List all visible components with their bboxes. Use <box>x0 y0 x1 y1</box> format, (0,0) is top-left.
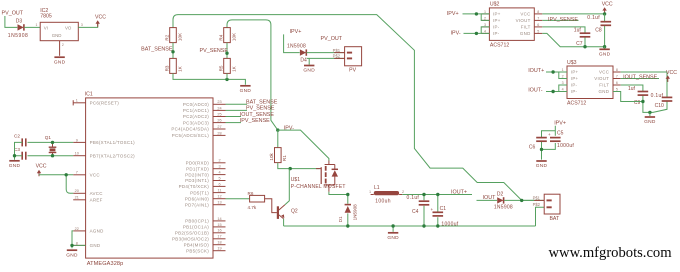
svg-text:0.1uf: 0.1uf <box>407 195 420 201</box>
svg-text:14: 14 <box>217 217 221 221</box>
wire Q2 emitter to ground rail <box>283 219 285 226</box>
svg-text:VCC: VCC <box>666 70 677 76</box>
connector BAT (battery) <box>533 194 560 222</box>
wire XTAL1 row <box>28 141 74 143</box>
svg-text:1: 1 <box>36 23 38 27</box>
svg-text:PB5(SCK): PB5(SCK) <box>186 248 209 253</box>
svg-text:PD4(T0/XCK): PD4(T0/XCK) <box>179 184 210 189</box>
transistor Q2 <box>278 205 285 219</box>
svg-text:P$1: P$1 <box>333 48 341 53</box>
svg-text:L1: L1 <box>374 185 380 191</box>
wire PV net: R4 top to IPV- junction <box>227 20 278 130</box>
svg-text:Q2: Q2 <box>291 208 298 214</box>
wire L1 to IOUT+ node <box>402 194 472 196</box>
junction C3 left <box>13 154 16 157</box>
IC1 pin 1 reset end tick <box>72 100 74 105</box>
svg-text:1000uf: 1000uf <box>557 143 574 149</box>
voltage regulator IC2 7805 <box>40 8 78 40</box>
wire GND stub under D4 <box>308 58 310 64</box>
wire VCC down through C8 to GND <box>604 14 606 47</box>
wire D2 to BAT P$1 <box>504 199 544 201</box>
wire IOUT to D2 <box>477 199 498 201</box>
svg-text:PV: PV <box>349 67 356 73</box>
svg-text:1K: 1K <box>231 65 236 72</box>
junction rail GND <box>391 224 394 227</box>
svg-text:2: 2 <box>402 190 404 194</box>
wire U$2 GND pin to GND <box>542 33 604 46</box>
svg-text:10k: 10k <box>269 152 274 160</box>
svg-text:P$2: P$2 <box>533 202 541 207</box>
svg-text:IOUT_SENSE: IOUT_SENSE <box>240 112 275 118</box>
svg-text:IP-: IP- <box>571 83 578 88</box>
svg-text:15: 15 <box>217 223 221 227</box>
wire U$2 FILT to C7 <box>542 27 585 47</box>
wire BAT P$2 down to ground rail <box>536 207 545 226</box>
connector PV (solar panel) <box>333 47 362 74</box>
svg-text:VCC: VCC <box>599 70 609 75</box>
svg-text:C8: C8 <box>595 28 602 34</box>
svg-text:IOUT_SENSE: IOUT_SENSE <box>623 74 658 80</box>
svg-text:7: 7 <box>76 171 78 175</box>
diode D1 (freewheel, cathode up) <box>345 205 351 213</box>
svg-text:Q1: Q1 <box>45 135 52 140</box>
svg-text:18: 18 <box>217 241 221 245</box>
wire Q2 collector to gate node <box>285 169 289 205</box>
junction C1 bottom <box>436 224 439 227</box>
svg-text:P$1: P$1 <box>533 196 541 201</box>
wire IPV+ down to C5 and C6 <box>542 126 556 160</box>
svg-text:PB6(XTAL1/TOSC1): PB6(XTAL1/TOSC1) <box>90 140 136 145</box>
svg-text:GND: GND <box>599 52 611 58</box>
svg-text:6: 6 <box>537 23 539 27</box>
ground (under D4) <box>303 66 315 74</box>
ground (crystal caps) <box>9 161 21 169</box>
wire IPV- to MOSFET source <box>278 130 329 161</box>
svg-text:AREF: AREF <box>90 198 103 203</box>
svg-text:GND: GND <box>303 68 315 74</box>
wire VCC to pin7 and AVCC <box>39 175 73 194</box>
svg-text:6: 6 <box>218 182 220 186</box>
junction C4 top <box>422 193 425 196</box>
svg-text:PC2(ADC2): PC2(ADC2) <box>183 114 209 119</box>
power VCC (IC2 output) <box>95 15 106 27</box>
capacitor C9 1uf <box>638 92 649 96</box>
svg-text:VCC: VCC <box>90 173 101 178</box>
svg-text:9: 9 <box>76 138 78 142</box>
wire D4 to PV pin P$1 <box>307 52 345 54</box>
wire IPV- down to R1 <box>277 130 279 148</box>
capacitor C2 (XTAL1) <box>22 138 26 146</box>
capacitor C6 <box>536 138 547 142</box>
svg-text:PC4(ADC4/SDA): PC4(ADC4/SDA) <box>171 127 209 132</box>
svg-text:22: 22 <box>75 227 79 231</box>
capacitor C10 0.1uf <box>662 97 673 101</box>
wire ground rail <box>284 225 536 227</box>
wire PV pin P$2 to ground <box>307 57 345 59</box>
svg-text:IP+: IP+ <box>571 70 579 75</box>
svg-text:PV_OUT: PV_OUT <box>2 11 24 17</box>
capacitor C5 1000uf (polarized) <box>548 132 561 141</box>
svg-text:0.1uf: 0.1uf <box>651 93 664 99</box>
junction C4 bottom <box>422 224 425 227</box>
svg-text:D1: D1 <box>338 216 343 222</box>
svg-text:IPV_SENSE: IPV_SENSE <box>240 118 270 124</box>
junction C5/C6 bottom <box>540 148 543 151</box>
svg-text:C2: C2 <box>14 133 20 138</box>
junction C9 bottom <box>641 100 644 103</box>
wire IOUT- to U$3 IP- pins <box>546 85 567 92</box>
ground (U$3) <box>644 117 656 125</box>
junction D1 top <box>346 193 349 196</box>
ground (U$2) <box>599 49 611 57</box>
wire U$2 VCC to VCC net <box>542 13 604 15</box>
svg-text:R2: R2 <box>164 34 169 40</box>
svg-text:IPV-: IPV- <box>284 126 294 132</box>
svg-text:4: 4 <box>218 171 220 175</box>
crystal Q1 <box>45 135 57 156</box>
svg-text:ATMEGA328p: ATMEGA328p <box>87 261 124 267</box>
wire PC1 to PV_SENSE label <box>226 109 248 111</box>
svg-text:VO: VO <box>65 26 72 31</box>
svg-text:+: + <box>431 207 434 212</box>
junction R5 bottom <box>225 78 228 81</box>
svg-text:8: 8 <box>616 68 618 72</box>
svg-text:1uf: 1uf <box>574 28 582 34</box>
svg-text:PB7(XTAL2/TOSC2): PB7(XTAL2/TOSC2) <box>90 153 136 158</box>
diode D3 <box>18 24 24 30</box>
svg-text:IOUT+: IOUT+ <box>528 68 544 74</box>
svg-text:20: 20 <box>75 189 79 193</box>
svg-text:2: 2 <box>62 43 64 47</box>
wire IOUT+ to U$3 IP+ pins <box>546 72 567 79</box>
wire U$2 VIOUT to IPV_SENSE <box>542 19 578 21</box>
junction AGND/GND <box>70 244 73 247</box>
svg-text:P-CHANNEL MOSFET: P-CHANNEL MOSFET <box>291 184 346 190</box>
wire U$3 VCC right and down through C10 <box>621 72 667 112</box>
svg-text:www.mfgrobots.com: www.mfgrobots.com <box>549 245 673 261</box>
power VCC arrow (IC1) <box>36 163 47 176</box>
svg-text:IC1: IC1 <box>85 91 93 97</box>
wire U$3 FILT to C9 <box>621 85 643 102</box>
svg-text:8: 8 <box>537 10 539 14</box>
wire IPV+ down to D4 <box>284 34 300 52</box>
svg-text:IP+: IP+ <box>493 12 501 17</box>
svg-text:1N5908: 1N5908 <box>494 205 513 211</box>
svg-text:PC0(ADC0): PC0(ADC0) <box>183 102 209 107</box>
wire R3 bottom to divider GND rail <box>173 73 245 84</box>
svg-text:IP-: IP- <box>571 89 578 94</box>
svg-text:IPV-: IPV- <box>451 31 461 37</box>
junction crystal XTAL1 <box>51 141 54 144</box>
svg-text:7805: 7805 <box>40 14 52 20</box>
svg-text:VIOUT: VIOUT <box>516 18 531 23</box>
wire D1 stubs <box>347 195 349 227</box>
svg-text:PD5(T1): PD5(T1) <box>190 190 209 195</box>
svg-text:PD0(RXD): PD0(RXD) <box>186 161 210 166</box>
junction D1 bottom <box>346 224 349 227</box>
svg-text:100uh: 100uh <box>375 198 391 204</box>
svg-text:25: 25 <box>217 112 221 116</box>
svg-text:11: 11 <box>218 189 222 193</box>
svg-text:GND: GND <box>240 88 252 94</box>
wire caps to GND <box>15 142 23 159</box>
svg-text:1N5908: 1N5908 <box>287 44 306 50</box>
wire U$3 GND pin route <box>613 92 650 113</box>
svg-text:7: 7 <box>616 75 618 79</box>
svg-text:U$3: U$3 <box>567 60 577 66</box>
svg-text:1N5908: 1N5908 <box>8 33 29 39</box>
svg-text:P$2: P$2 <box>333 54 341 59</box>
ground (rail) <box>387 233 399 241</box>
op-amp U$3 ACS712 current sensor <box>559 60 621 107</box>
svg-text:21: 21 <box>75 196 79 200</box>
svg-text:VIOUT: VIOUT <box>594 76 609 81</box>
svg-text:10: 10 <box>75 152 79 156</box>
svg-text:R5: R5 <box>218 65 223 71</box>
junction gate node <box>289 167 292 170</box>
svg-text:VI: VI <box>44 26 48 31</box>
svg-text:3: 3 <box>81 23 83 27</box>
resistor R1 10k <box>269 148 287 163</box>
svg-text:1000uf: 1000uf <box>441 221 458 227</box>
wire U$3 VIOUT to IOUT_SENSE <box>621 78 659 80</box>
power VCC (U$3) <box>666 70 678 82</box>
svg-text:IPV+: IPV+ <box>290 29 302 35</box>
svg-text:GND: GND <box>536 163 548 169</box>
svg-text:FILT: FILT <box>521 25 531 30</box>
capacitor C7 1uf <box>580 33 591 37</box>
svg-text:C10: C10 <box>655 103 664 109</box>
svg-text:PV_OUT: PV_OUT <box>321 36 343 42</box>
wire R6 to Q2 base <box>265 199 277 213</box>
resistor R2 10K <box>164 28 182 43</box>
svg-text:R3: R3 <box>164 65 169 71</box>
svg-text:C5: C5 <box>557 131 564 137</box>
svg-text:4.7k: 4.7k <box>248 205 257 210</box>
svg-text:PB4(MISO): PB4(MISO) <box>184 242 210 247</box>
svg-text:5: 5 <box>537 30 539 34</box>
svg-text:23: 23 <box>217 100 221 104</box>
op-amp U$2 ACS712 current sensor <box>481 2 542 49</box>
svg-text:R1: R1 <box>282 155 287 161</box>
svg-text:IOUT-: IOUT- <box>528 88 543 94</box>
svg-text:AGND: AGND <box>90 229 104 234</box>
ground (IC2) <box>54 57 66 65</box>
junction C7 to GND line <box>583 45 586 48</box>
svg-text:GND: GND <box>599 89 610 94</box>
svg-text:PB0(ICP1): PB0(ICP1) <box>185 219 209 224</box>
wire PC2 to IOUT_SENSE label <box>226 116 242 118</box>
wire D3 to IC2 VI <box>24 26 40 28</box>
svg-text:PV_SENSE: PV_SENSE <box>246 106 275 112</box>
svg-text:GND: GND <box>387 235 399 241</box>
IC1 right pins <box>171 100 225 253</box>
svg-text:GND: GND <box>90 243 101 248</box>
svg-text:2: 2 <box>218 159 220 163</box>
svg-text:19: 19 <box>217 247 221 251</box>
svg-text:PC1(ADC1): PC1(ADC1) <box>183 108 209 113</box>
svg-text:GND: GND <box>54 59 66 65</box>
svg-text:IP-: IP- <box>493 25 500 30</box>
wire AGND and GND pins to ground <box>72 231 86 248</box>
svg-text:10K: 10K <box>231 32 236 41</box>
svg-text:IPV+: IPV+ <box>554 121 566 127</box>
svg-text:PV_SENSE: PV_SENSE <box>200 48 229 54</box>
ground (IC1) <box>66 250 78 258</box>
svg-text:D2: D2 <box>497 192 504 198</box>
wire PV_OUT to D3 <box>5 16 17 27</box>
junction IPV- node <box>276 128 279 131</box>
svg-text:IOUT+: IOUT+ <box>451 190 467 196</box>
svg-text:BAT_SENSE: BAT_SENSE <box>141 47 173 53</box>
resistor R5 1K <box>218 58 236 73</box>
svg-text:VCC: VCC <box>95 15 106 21</box>
wire GND stub U$2 <box>604 47 606 49</box>
resistor R3 1K <box>164 58 182 73</box>
capacitor C4 0.1uf <box>419 195 430 227</box>
svg-text:FILT: FILT <box>599 83 609 88</box>
svg-text:C9: C9 <box>634 100 641 106</box>
junction U$2 VCC / C8 <box>603 12 606 15</box>
wire IC2 GND pin down <box>59 41 61 56</box>
wire IC2 VO to VCC <box>78 23 97 27</box>
wire PD6 to R6 <box>226 198 250 200</box>
svg-text:13: 13 <box>217 201 221 205</box>
svg-text:PD6(AIN0): PD6(AIN0) <box>185 196 209 201</box>
power VCC (U$2) <box>602 2 613 14</box>
junction U$3 GND node <box>648 111 651 114</box>
svg-text:IPV_SENSE: IPV_SENSE <box>548 17 578 23</box>
wire R2 to R3 through BAT_SENSE node <box>172 43 174 59</box>
svg-text:R6: R6 <box>248 191 254 196</box>
svg-text:1uf: 1uf <box>628 86 636 92</box>
resistor R6 4.7k <box>248 191 265 210</box>
svg-text:PD3(INT1): PD3(INT1) <box>185 178 209 183</box>
svg-text:PB2(SS/OC1B): PB2(SS/OC1B) <box>175 231 209 236</box>
wire MOSFET drain to L1 node <box>329 192 348 195</box>
svg-text:GND: GND <box>644 119 656 125</box>
wire IPV+ to U$2 IP+ pins <box>463 14 490 21</box>
svg-text:PD1(TXD): PD1(TXD) <box>186 166 209 171</box>
svg-text:C6: C6 <box>529 144 536 150</box>
svg-text:IP+: IP+ <box>571 76 579 81</box>
svg-text:17: 17 <box>217 235 221 239</box>
capacitor C8 0.1uf <box>601 22 612 26</box>
svg-text:U$1: U$1 <box>291 177 300 183</box>
svg-text:IP+: IP+ <box>493 18 501 23</box>
svg-text:BAT_SENSE: BAT_SENSE <box>246 100 278 106</box>
junction staircase to BAT wire <box>520 199 523 202</box>
svg-text:GND: GND <box>9 163 21 169</box>
wire R1 bottom to gate line <box>278 163 320 169</box>
wire IPV- to U$2 IP- pins <box>464 27 490 34</box>
junction crystal XTAL2 <box>51 154 54 157</box>
svg-text:VCC: VCC <box>36 163 47 169</box>
inductor L1 100uh <box>369 185 404 204</box>
capacitor C4 plates <box>419 201 430 205</box>
wire GND stub on rail <box>392 226 394 232</box>
ground (dividers) <box>240 86 252 94</box>
svg-text:ACS712: ACS712 <box>567 100 586 106</box>
svg-text:D3: D3 <box>16 19 23 25</box>
svg-text:1N5908: 1N5908 <box>352 204 357 221</box>
svg-text:7: 7 <box>537 17 539 21</box>
svg-text:10K: 10K <box>177 32 182 41</box>
junction C1 top <box>436 193 439 196</box>
svg-text:VCC: VCC <box>602 2 613 8</box>
svg-text:3: 3 <box>218 165 220 169</box>
svg-text:R4: R4 <box>218 34 223 40</box>
svg-text:PC3(ADC3): PC3(ADC3) <box>183 120 209 125</box>
svg-text:1: 1 <box>76 99 78 103</box>
resistor R4 10K <box>218 28 236 43</box>
svg-text:ACS712: ACS712 <box>490 43 509 49</box>
svg-text:27: 27 <box>217 125 221 129</box>
svg-text:IPV+: IPV+ <box>447 11 459 17</box>
svg-text:GND: GND <box>52 33 62 38</box>
svg-text:+: + <box>548 132 551 137</box>
ground (C5/C6) <box>536 161 548 169</box>
svg-text:8: 8 <box>76 241 78 245</box>
svg-text:U$2: U$2 <box>490 2 500 8</box>
svg-text:6: 6 <box>616 81 618 85</box>
svg-text:28: 28 <box>217 131 221 135</box>
svg-text:1: 1 <box>369 190 371 194</box>
svg-text:24: 24 <box>217 106 221 110</box>
svg-text:AVCC: AVCC <box>90 191 104 196</box>
svg-text:0.1uf: 0.1uf <box>587 15 600 21</box>
wire R4 to R5 through PV_SENSE node <box>226 43 228 59</box>
wire PC0 to BAT_SENSE label <box>226 103 248 105</box>
wire XTAL2 row <box>28 155 74 157</box>
svg-text:26: 26 <box>217 119 221 123</box>
IC1 left pins <box>73 99 135 248</box>
svg-text:16: 16 <box>217 229 221 233</box>
wire BAT net: R2 top to staircase to D2 (long route) <box>173 15 534 201</box>
wire GND stub U$3 <box>649 112 651 116</box>
svg-text:BAT: BAT <box>549 216 560 222</box>
junction VCC/AVCC <box>65 173 68 176</box>
svg-text:PC5(ADC5/SCL): PC5(ADC5/SCL) <box>172 133 209 138</box>
svg-text:C1: C1 <box>440 206 447 212</box>
svg-text:1K: 1K <box>177 65 182 72</box>
svg-text:IP-: IP- <box>493 31 500 36</box>
svg-text:PC6(RESET): PC6(RESET) <box>90 101 120 106</box>
microcontroller IC1 ATMEGA328p <box>85 91 213 267</box>
diode D4 <box>300 49 306 55</box>
svg-text:GND: GND <box>66 252 78 258</box>
svg-text:12: 12 <box>217 195 221 199</box>
capacitor C3 (XTAL2) <box>22 152 26 160</box>
junction C8 to GND line <box>603 45 606 48</box>
svg-text:PD7(AIN1): PD7(AIN1) <box>185 202 209 207</box>
transistor U$1 P-CHANNEL MOSFET <box>316 161 338 192</box>
wire R5 bottom <box>226 73 228 79</box>
svg-text:GND: GND <box>520 31 531 36</box>
svg-text:VCC: VCC <box>520 12 530 17</box>
svg-text:PD2(INT0): PD2(INT0) <box>185 172 209 177</box>
svg-text:5: 5 <box>218 176 220 180</box>
wire PC3 to IPV_SENSE label <box>226 122 242 124</box>
svg-text:D4: D4 <box>300 57 307 63</box>
svg-text:PB3(MOSI/OC2): PB3(MOSI/OC2) <box>172 237 209 242</box>
svg-text:C4: C4 <box>412 209 419 215</box>
capacitor C1 1000uf (polarized) <box>431 195 444 227</box>
svg-text:PB1(OC1A): PB1(OC1A) <box>183 225 209 230</box>
diode D2 <box>497 197 503 203</box>
